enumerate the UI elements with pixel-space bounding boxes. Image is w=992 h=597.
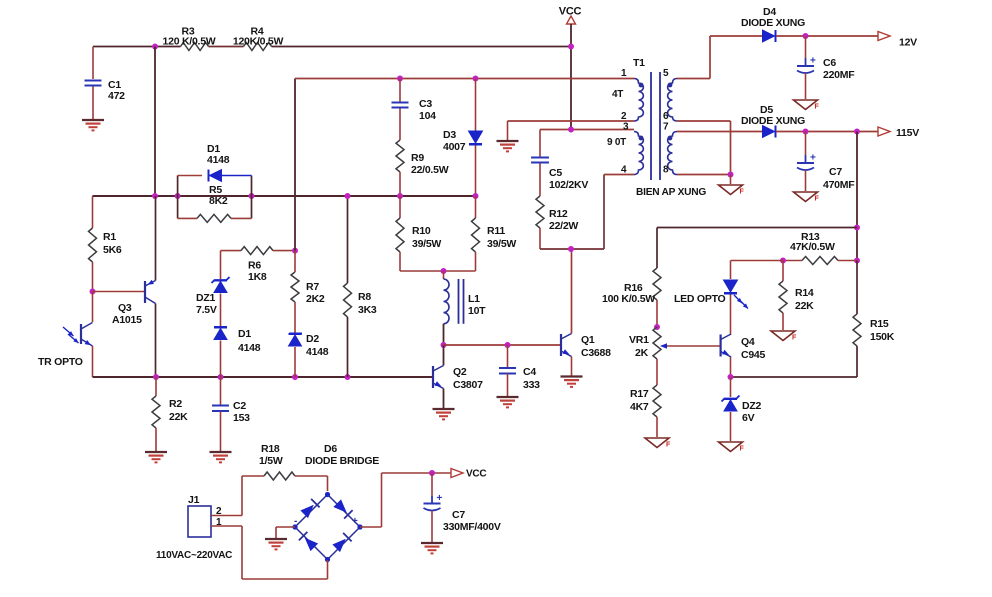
wire pin2 down to ground xyxy=(507,121,509,140)
wire Q1 collector up xyxy=(571,249,573,334)
wire L1 bottom lead xyxy=(443,324,445,345)
node bus2 x347 xyxy=(345,374,351,380)
svg-text:153: 153 xyxy=(233,412,250,424)
wire R17 to ground xyxy=(656,417,658,437)
wire R15 bottom to Q4 emitter node xyxy=(856,346,858,377)
ground triangle under C7 xyxy=(794,192,818,202)
wire bus1 corner down to R1 xyxy=(92,196,94,228)
ground under C7b xyxy=(421,542,443,544)
svg-text:C945: C945 xyxy=(741,349,766,361)
svg-text:DZ1: DZ1 xyxy=(196,292,215,304)
svg-text:DIODE XUNG: DIODE XUNG xyxy=(741,115,805,127)
svg-text:4K7: 4K7 xyxy=(630,401,649,413)
wire D1 to bus2 xyxy=(220,341,222,378)
ground under C4 xyxy=(497,396,519,398)
node bus2 x156 xyxy=(153,374,159,380)
node pin1/C3 column xyxy=(397,76,403,82)
wire R7 top lead xyxy=(294,251,296,272)
ground under Q1 xyxy=(561,375,583,377)
svg-text:22/2W: 22/2W xyxy=(549,220,578,232)
svg-text:C2: C2 xyxy=(233,400,246,412)
transformer polarity dot right 2 xyxy=(668,136,673,141)
svg-text:C3: C3 xyxy=(419,98,432,110)
wire R13 left lead xyxy=(783,260,802,262)
node C7 top xyxy=(803,129,809,135)
transistor Q1 C3688 xyxy=(560,334,562,356)
transformer polarity dot left 2 xyxy=(639,136,644,141)
wire opto collector xyxy=(92,292,94,323)
svg-text:47K/0.5W: 47K/0.5W xyxy=(790,241,835,253)
node L1 top xyxy=(441,268,447,274)
svg-text:12V: 12V xyxy=(899,37,917,49)
svg-text:8: 8 xyxy=(663,165,669,176)
svg-text:3: 3 xyxy=(623,122,629,133)
svg-text:330MF/400V: 330MF/400V xyxy=(443,521,501,533)
svg-text:C7: C7 xyxy=(452,509,465,521)
svg-text:102/2KV: 102/2KV xyxy=(549,179,588,191)
node bus1 box left xyxy=(175,193,181,199)
wire Q3 emitter up to bus1 xyxy=(155,196,157,281)
wire Q3 collector down xyxy=(155,304,157,378)
svg-text:120 K/0.5W: 120 K/0.5W xyxy=(163,36,216,48)
bridge diode upper-left xyxy=(300,505,313,518)
svg-text:R11: R11 xyxy=(487,225,505,237)
capacitor C7 330MF/400V xyxy=(424,503,441,505)
ground triangle under R17 xyxy=(645,438,669,448)
wire L1 top lead xyxy=(443,271,445,279)
diode D1 4148 (top of box) xyxy=(220,175,252,177)
capacitor C5 102/2KV xyxy=(531,157,549,159)
transformer polarity dot right 1 xyxy=(668,83,673,88)
wire pin8 xyxy=(677,174,731,176)
wire C5 to R12 xyxy=(539,164,541,197)
svg-text:R1: R1 xyxy=(103,231,116,243)
wire Q3 base xyxy=(93,291,146,293)
wire C3 to R9 xyxy=(399,109,401,141)
wire R1 to node xyxy=(92,262,94,292)
svg-text:+: + xyxy=(810,56,816,67)
resistor R2 22K xyxy=(152,396,160,428)
wire bridge left to ground xyxy=(276,526,295,528)
transistor Q2 C3807 xyxy=(432,366,434,388)
ground triangle under R14 xyxy=(771,331,795,341)
svg-text:39/5W: 39/5W xyxy=(412,238,441,250)
wire top rail from C1 to VCC column xyxy=(93,46,181,48)
svg-text:22/0.5W: 22/0.5W xyxy=(411,164,449,176)
svg-text:DZ2: DZ2 xyxy=(742,400,761,412)
node bus1 R8 xyxy=(345,193,351,199)
wire bridge bottom to J1 pin1 xyxy=(327,560,329,579)
resistor R18 1/5W xyxy=(264,472,295,480)
svg-text:7.5V: 7.5V xyxy=(196,304,217,316)
node Q2 collector / base drive xyxy=(441,342,447,348)
wire D4 to 12V arrow xyxy=(776,35,880,37)
ground triangle under T1 xyxy=(719,185,743,195)
wire DZ2 to ground xyxy=(730,412,732,441)
node R1/Q3 base xyxy=(90,289,96,295)
wire pin8 to ground xyxy=(730,175,732,185)
svg-text:+: + xyxy=(352,516,358,527)
node pin1/D3 column xyxy=(473,76,479,82)
svg-text:9 0T: 9 0T xyxy=(607,137,626,148)
svg-text:D1: D1 xyxy=(238,328,251,340)
node bus1 x400 xyxy=(397,193,403,199)
svg-text:Q3: Q3 xyxy=(118,302,132,314)
wire R14 top lead xyxy=(782,261,784,282)
transformer T1 left winding 1 (4T) xyxy=(634,79,643,122)
ground under C2 xyxy=(210,451,232,453)
ground triangle under C6 xyxy=(794,100,818,110)
wire opto emitter down to bus2 xyxy=(92,346,94,377)
resistor R17 4K7 xyxy=(653,385,661,417)
svg-text:Q2: Q2 xyxy=(453,366,467,378)
node VCC column to pin3 xyxy=(568,127,574,133)
resistor R12 22/2W xyxy=(536,196,544,228)
svg-text:4: 4 xyxy=(621,165,627,176)
svg-text:4148: 4148 xyxy=(238,342,261,354)
ground under bridge xyxy=(265,538,287,540)
svg-text:DIODE BRIDGE: DIODE BRIDGE xyxy=(305,455,379,467)
svg-text:+: + xyxy=(437,493,443,504)
svg-text:6V: 6V xyxy=(742,412,755,424)
svg-text:C4: C4 xyxy=(523,366,536,378)
wire D3 to bus1 xyxy=(475,146,477,197)
wire R8 top lead xyxy=(347,196,349,283)
wire C6 to ground xyxy=(805,73,807,99)
wire R8 to bus2 xyxy=(347,317,349,377)
node 115V feed right column xyxy=(854,129,860,135)
resistor R5 8K2 (bottom of box) xyxy=(178,217,197,219)
wire parallel box D1/R5 xyxy=(177,176,179,219)
resistor R9 22/0.5W xyxy=(396,140,404,172)
svg-text:100 K/0.5W: 100 K/0.5W xyxy=(602,293,655,305)
wire R10 top lead xyxy=(399,196,401,218)
svg-text:R15: R15 xyxy=(870,318,889,330)
svg-text:R2: R2 xyxy=(169,398,182,410)
wire LED to Q4 collector xyxy=(730,295,732,335)
wire DZ1 to D1 xyxy=(220,294,222,327)
node C7b top xyxy=(429,470,435,476)
wire pin3 horizontal xyxy=(540,129,634,131)
svg-text:L1: L1 xyxy=(468,293,480,305)
svg-text:R6: R6 xyxy=(248,260,261,272)
svg-text:4T: 4T xyxy=(612,89,623,100)
wire R14 to ground xyxy=(782,313,784,330)
wire J1 pin2 to R18 xyxy=(211,515,242,517)
wire R11 top lead xyxy=(475,196,477,218)
svg-text:22K: 22K xyxy=(169,411,188,423)
diode D4 DIODE XUNG xyxy=(763,30,775,42)
node bus1 box right xyxy=(249,193,255,199)
ground under C1 xyxy=(82,119,104,121)
svg-text:VCC: VCC xyxy=(466,469,486,480)
wire R6 left lead xyxy=(221,250,242,252)
capacitor C7 470MF xyxy=(797,162,814,164)
svg-text:R12: R12 xyxy=(549,208,568,220)
svg-text:R7: R7 xyxy=(306,281,319,293)
svg-text:R18: R18 xyxy=(261,443,280,455)
transformer T1 left winding 2 (90T) xyxy=(634,132,643,175)
svg-text:BIEN AP XUNG: BIEN AP XUNG xyxy=(636,187,706,198)
wire C2 top lead xyxy=(220,377,222,405)
wire pin6 down to pin8 xyxy=(677,120,731,122)
wire C5 top lead xyxy=(539,130,541,158)
wire pin1 horizontal y78.5 xyxy=(295,78,634,80)
wire VR1 to R17 xyxy=(656,359,658,385)
wire R6 left corner down to DZ1 xyxy=(220,251,222,279)
wire R12 bottom jog to pin4 xyxy=(539,228,541,249)
svg-text:1: 1 xyxy=(621,68,627,79)
svg-text:5: 5 xyxy=(663,68,669,79)
svg-text:1/5W: 1/5W xyxy=(259,455,283,467)
LED OPTO xyxy=(724,280,738,292)
wire R2 to ground xyxy=(155,428,157,451)
svg-text:150K: 150K xyxy=(870,331,895,343)
node Q1 collector / R12 xyxy=(568,246,574,252)
node pin8 junction xyxy=(728,172,734,178)
node junction top rail / x155 column xyxy=(152,44,158,50)
svg-text:220MF: 220MF xyxy=(823,69,855,81)
svg-text:R9: R9 xyxy=(411,152,424,164)
node C4 top xyxy=(505,342,511,348)
wire R11 bottom lead xyxy=(475,252,477,271)
wire bridge right to VCC xyxy=(360,526,382,528)
transformer polarity dot left 1 xyxy=(639,83,644,88)
svg-text:333: 333 xyxy=(523,379,540,391)
bridge diode upper-right xyxy=(333,499,346,512)
svg-text:J1: J1 xyxy=(188,494,200,506)
svg-text:120K/0.5W: 120K/0.5W xyxy=(233,36,284,48)
svg-text:8K2: 8K2 xyxy=(209,195,228,207)
wire D2 to bus2 xyxy=(294,347,296,377)
svg-text:5K6: 5K6 xyxy=(103,244,122,256)
wire VCC column xyxy=(570,24,572,130)
connector J1 box xyxy=(188,506,211,537)
wire LED top corner xyxy=(731,260,784,262)
svg-text:2K: 2K xyxy=(635,347,649,359)
wire R10-R11 bottom join xyxy=(400,270,476,272)
transformer T1 right winding 1 xyxy=(668,79,677,122)
ground triangle under DZ2 xyxy=(719,442,743,452)
diode D1 4148 (lower) xyxy=(214,326,227,328)
svg-text:C3807: C3807 xyxy=(453,379,483,391)
resistor R3 xyxy=(181,43,209,51)
wire R10 bottom lead xyxy=(399,252,401,271)
diode bridge D6 frame xyxy=(295,495,360,560)
arrow VCC bottom xyxy=(451,469,463,478)
wire C7 to ground xyxy=(805,170,807,191)
wire Q1 emitter to ground xyxy=(571,357,573,376)
capacitor C2 153 xyxy=(212,405,229,407)
resistor R16 100K/0.5W xyxy=(653,268,661,300)
arrow 115V output xyxy=(878,127,890,136)
transistor Q4 C945 xyxy=(719,335,721,357)
svg-text:2: 2 xyxy=(621,111,627,122)
capacitor C4 333 xyxy=(499,367,516,369)
svg-text:C7: C7 xyxy=(829,166,842,178)
resistor R1 5K6 xyxy=(89,228,97,262)
svg-text:C6: C6 xyxy=(823,57,836,69)
svg-text:470MF: 470MF xyxy=(823,179,855,191)
wire C7b to ground xyxy=(431,511,433,543)
wire Q1 base drive y345 xyxy=(444,344,562,346)
svg-text:3K3: 3K3 xyxy=(358,304,377,316)
transistor Q3 A1015 (PNP) xyxy=(144,281,146,303)
node bus2 x220 xyxy=(218,374,224,380)
wire x155 column xyxy=(154,47,156,197)
svg-text:-: - xyxy=(294,516,297,527)
resistor R8 3K3 xyxy=(344,283,352,317)
resistor R14 22K xyxy=(779,281,787,313)
wire C2 to ground xyxy=(220,412,222,452)
svg-text:Q4: Q4 xyxy=(741,336,755,348)
ground under Q2 xyxy=(433,408,455,410)
wire C6 top lead xyxy=(805,36,807,58)
svg-text:Q1: Q1 xyxy=(581,334,595,346)
resistor R10 39/5W xyxy=(396,218,404,252)
svg-text:A1015: A1015 xyxy=(112,314,142,326)
svg-text:VR1: VR1 xyxy=(629,334,649,346)
capacitor C3 104 xyxy=(392,102,409,104)
inductor L1 10T xyxy=(444,279,450,324)
node bus1 x155 xyxy=(152,193,158,199)
svg-text:104: 104 xyxy=(419,110,436,122)
wire C7 top lead xyxy=(805,132,807,156)
wire C3 top lead xyxy=(399,79,401,102)
wire pin7 to D5 xyxy=(677,131,763,133)
svg-text:C3688: C3688 xyxy=(581,347,611,359)
wire D5 to 115V arrow xyxy=(776,131,880,133)
wire R7 to D2 xyxy=(294,302,296,333)
svg-text:+: + xyxy=(810,153,816,164)
wire DZ2 top lead xyxy=(730,377,732,397)
transformer T1 right winding 2 xyxy=(668,132,677,175)
node Q4 emitter / DZ2 xyxy=(728,374,734,380)
node bus2 x295 xyxy=(292,374,298,380)
node ctrl top corner xyxy=(854,225,860,231)
svg-text:D2: D2 xyxy=(306,333,319,345)
svg-text:R14: R14 xyxy=(795,287,814,299)
svg-text:110VAC~220VAC: 110VAC~220VAC xyxy=(156,550,232,561)
node C6 top xyxy=(803,33,809,39)
svg-text:4148: 4148 xyxy=(306,346,329,358)
arrow 12V output xyxy=(878,32,890,41)
svg-text:VCC: VCC xyxy=(559,6,582,18)
svg-text:D6: D6 xyxy=(324,443,337,455)
wire Q4 emitter to node xyxy=(730,357,732,377)
bus2 horizontal y377 xyxy=(93,376,434,378)
wire pin1 left riser x295 xyxy=(294,79,296,251)
wire R13 right lead xyxy=(838,260,857,262)
bridge diode lower-left xyxy=(305,538,318,551)
capacitor C6 220MF xyxy=(797,65,814,67)
potentiometer VR1 2K xyxy=(653,327,661,359)
svg-text:C5: C5 xyxy=(549,167,562,179)
wire Q2 collector xyxy=(443,345,445,366)
svg-text:LED OPTO: LED OPTO xyxy=(674,293,726,305)
wire D3 top lead xyxy=(475,79,477,132)
resistor R13 47K/0.5W xyxy=(802,257,838,265)
transformer T1 core xyxy=(650,72,652,180)
diode D3 4007 xyxy=(469,131,483,143)
node R13/R14/LED xyxy=(780,258,786,264)
diode D5 DIODE XUNG xyxy=(763,126,775,138)
wire C1 top stub xyxy=(92,47,94,80)
wire R16 to VR1 xyxy=(656,300,658,327)
wire R16 top lead xyxy=(656,228,658,269)
ground pin2 xyxy=(497,140,519,142)
svg-text:7: 7 xyxy=(663,122,669,133)
bridge diode lower-right xyxy=(332,539,345,552)
capacitor C1 xyxy=(85,80,102,82)
svg-text:D3: D3 xyxy=(443,129,456,141)
wire R9 to bus1 xyxy=(399,172,401,196)
svg-text:R10: R10 xyxy=(412,225,431,237)
svg-text:4007: 4007 xyxy=(443,141,466,153)
wire C4 to ground xyxy=(507,374,509,397)
wire ctrl top horizontal y227 xyxy=(657,227,857,229)
svg-text:2K2: 2K2 xyxy=(306,293,325,305)
svg-text:39/5W: 39/5W xyxy=(487,238,516,250)
svg-text:10T: 10T xyxy=(468,305,486,317)
svg-text:R17: R17 xyxy=(630,388,649,400)
wire R15 top lead xyxy=(856,261,858,315)
wire C7b top lead xyxy=(431,473,433,496)
node R13 right xyxy=(854,258,860,264)
VR1 wiper arrow xyxy=(666,345,721,347)
wire pin5 to 12V rail xyxy=(677,78,710,80)
bus1 horizontal y196 xyxy=(93,195,476,197)
svg-text:TR OPTO: TR OPTO xyxy=(38,356,83,368)
svg-text:4148: 4148 xyxy=(207,154,230,166)
svg-text:472: 472 xyxy=(108,90,125,102)
wire R2 top lead xyxy=(155,377,157,396)
resistor R11 39/5W xyxy=(472,218,480,252)
resistor R4 xyxy=(244,43,272,51)
svg-text:T1: T1 xyxy=(633,57,645,69)
wire 115V down right column xyxy=(856,132,858,261)
resistor R7 2K2 xyxy=(291,272,299,302)
transistor TR OPTO (photo) xyxy=(80,324,82,344)
node bus1 x475 xyxy=(473,193,479,199)
wire C4 top lead xyxy=(507,345,509,367)
zener DZ1 7.5V xyxy=(212,277,230,283)
wire R6 right lead xyxy=(273,250,295,252)
bridge vertex dots xyxy=(325,492,330,497)
resistor R6 1K8 xyxy=(241,247,273,255)
wire R18 to bridge top xyxy=(295,475,328,477)
wire C1 to ground xyxy=(92,87,94,120)
node R6/R7/pin1 column xyxy=(292,248,298,254)
resistor R15 150K xyxy=(853,314,861,346)
svg-text:1K8: 1K8 xyxy=(248,271,267,283)
svg-text:6: 6 xyxy=(663,111,669,122)
svg-text:R8: R8 xyxy=(358,291,371,303)
node VR1 top xyxy=(654,324,660,330)
ground under R2 xyxy=(145,451,167,453)
diode D2 4148 xyxy=(289,333,302,335)
svg-text:DIODE XUNG: DIODE XUNG xyxy=(741,17,805,29)
svg-text:22K: 22K xyxy=(795,300,814,312)
wire pin2 horizontal xyxy=(508,120,635,122)
svg-text:115V: 115V xyxy=(896,127,919,139)
wire Q2 emitter to ground xyxy=(443,389,445,409)
node VCC/top rail xyxy=(568,44,574,50)
zener DZ2 6V xyxy=(722,396,740,402)
